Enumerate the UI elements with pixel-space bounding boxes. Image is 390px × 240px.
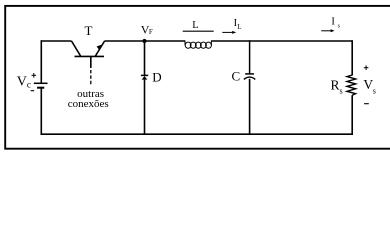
wire capacitor branch lower — [249, 79, 251, 135]
svg-text:V: V — [17, 75, 27, 90]
svg-text:L: L — [192, 20, 198, 31]
capacitor C — [245, 73, 254, 75]
source VC battery — [34, 82, 48, 84]
VS minus sign — [364, 103, 369, 105]
inductor L label underline — [183, 30, 214, 32]
transistor emitter arrowhead — [97, 45, 102, 51]
svg-text:s: s — [373, 86, 376, 95]
wire capacitor branch upper — [249, 40, 251, 74]
current IS arrow — [321, 30, 331, 32]
VC plus sign — [32, 74, 37, 76]
svg-text:L: L — [237, 23, 241, 31]
svg-text:C: C — [232, 69, 241, 84]
wire left vertical lower — [40, 88, 42, 135]
resistor RS zigzag — [347, 75, 356, 95]
node VF junction dot — [142, 39, 146, 43]
svg-text:T: T — [85, 23, 93, 38]
wire right vertical lower — [351, 95, 353, 135]
diode D — [141, 74, 148, 76]
svg-text:conexões: conexões — [68, 98, 109, 110]
current IL arrow — [222, 31, 233, 33]
VS plus sign — [364, 67, 369, 69]
svg-text:R: R — [331, 78, 340, 93]
VC minus sign — [31, 90, 35, 92]
wire bottom horizontal — [41, 133, 354, 135]
svg-text:I: I — [331, 17, 335, 28]
wire top-left horizontal — [41, 40, 71, 42]
wire inductor to right corner — [211, 40, 352, 42]
transistor T — [72, 41, 105, 84]
svg-text:c: c — [27, 80, 31, 90]
inductor L — [185, 40, 211, 48]
svg-text:s: s — [340, 86, 343, 95]
wire diode branch upper — [144, 40, 146, 75]
svg-text:s: s — [338, 24, 341, 30]
border frame — [5, 6, 390, 149]
wire left vertical upper — [40, 40, 42, 83]
wire right vertical upper — [351, 40, 353, 75]
wire top horizontal emitter to right corner — [105, 40, 186, 42]
wire diode branch lower — [144, 80, 146, 135]
svg-text:D: D — [152, 69, 161, 84]
svg-text:F: F — [149, 28, 153, 36]
